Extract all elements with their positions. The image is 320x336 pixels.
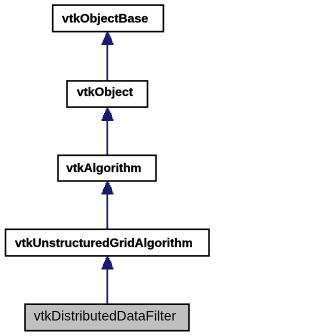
- svg-text:vtkObject: vtkObject: [77, 85, 133, 99]
- svg-text:vtkUnstructuredGridAlgorithm: vtkUnstructuredGridAlgorithm: [15, 236, 193, 250]
- svg-text:vtkAlgorithm: vtkAlgorithm: [66, 161, 141, 175]
- svg-text:vtkDistributedDataFilter: vtkDistributedDataFilter: [34, 309, 177, 324]
- svg-text:vtkObjectBase: vtkObjectBase: [62, 11, 148, 25]
